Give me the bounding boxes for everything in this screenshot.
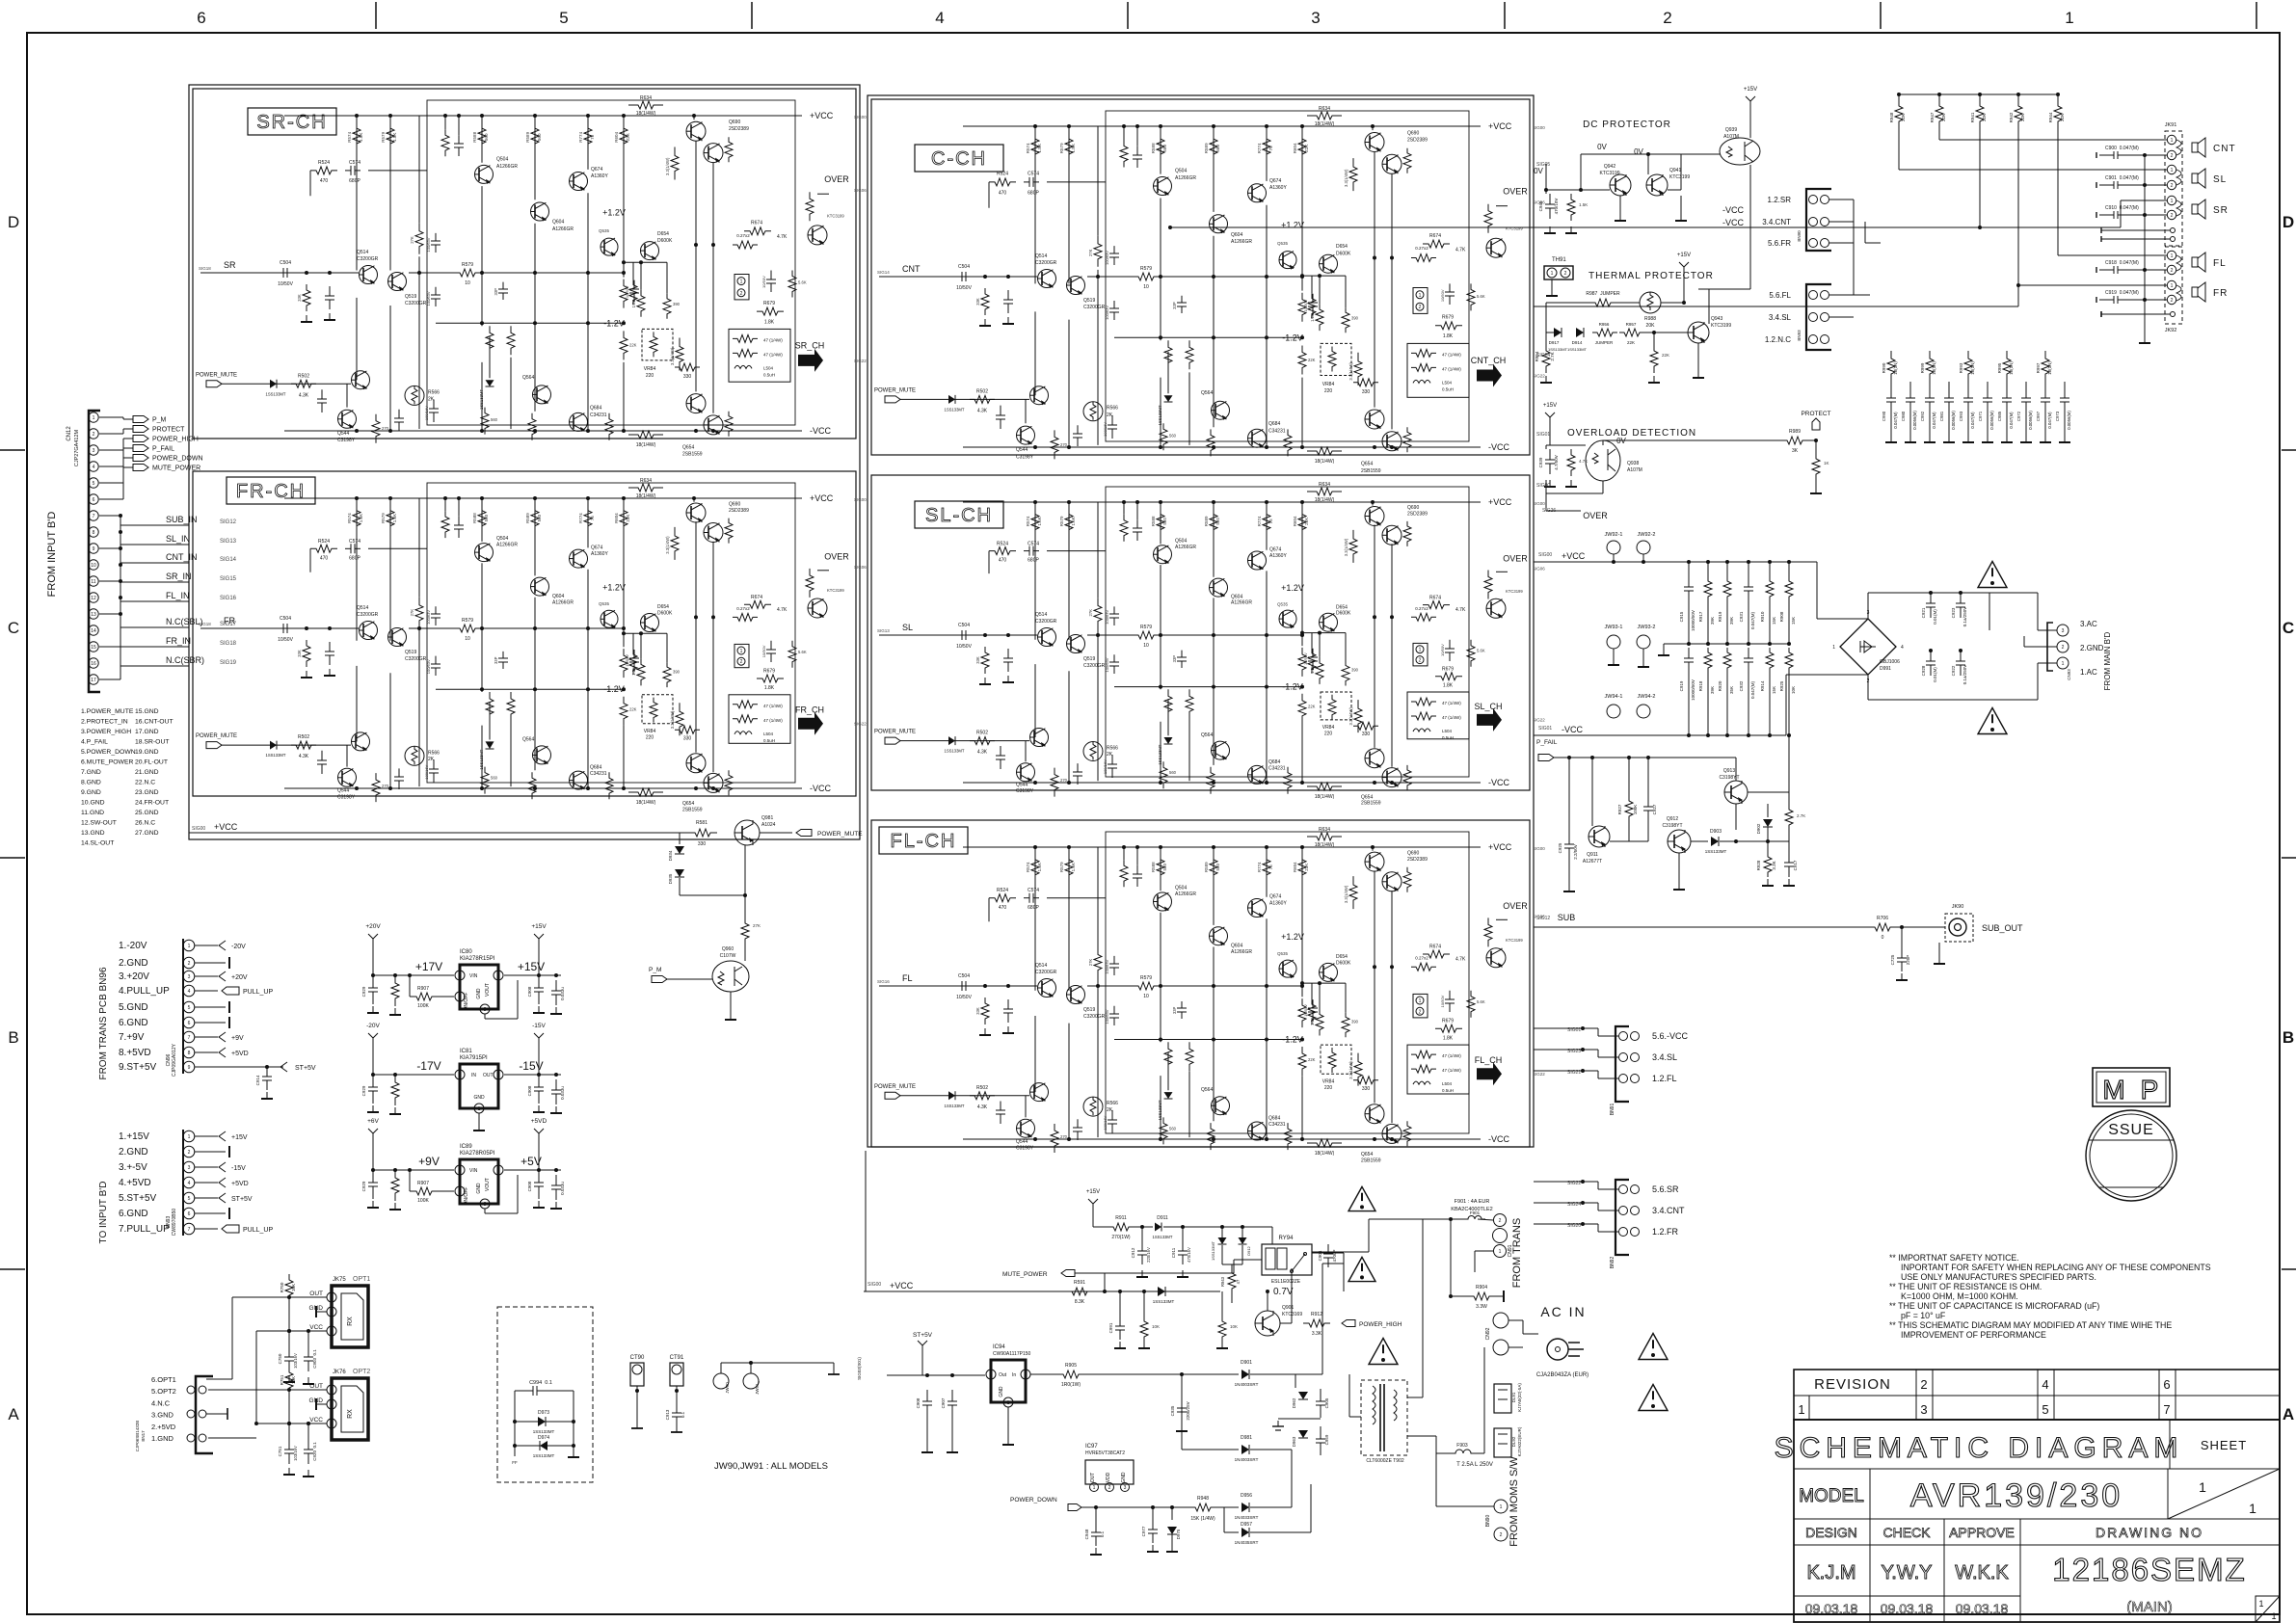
svg-text:BN17: BN17 [141,1430,146,1442]
svg-text:SCHEMATIC DIAGRAM: SCHEMATIC DIAGRAM [1775,1432,2184,1464]
option diode D974 [515,1445,574,1447]
svg-text:1: 1 [2062,661,2065,667]
SL-CH output darlington Q654 [1365,749,1384,768]
BN92 row 1.2.FR [1619,1228,1628,1237]
svg-text:R999: R999 [1920,362,1925,373]
FR-CH darlington emitter resistors [725,519,733,544]
svg-text:6: 6 [197,9,205,27]
svg-text:JW91_: JW91_ [755,1381,760,1396]
thermal diodes D917 D914 [1545,303,1547,333]
svg-text:33K: 33K [975,298,980,306]
FL-CH output emitter resistors R658 [1411,963,1436,971]
JN90 ground [1938,943,1940,964]
C-CH caps C584 C594 [1111,415,1113,425]
C-CH cap C654 [1312,294,1314,303]
svg-text:VR84: VR84 [1322,382,1335,387]
svg-text:22K: 22K [629,343,637,348]
svg-text:10K: 10K [291,1376,296,1384]
svg-text:C: C [2283,619,2294,637]
svg-text:R907: R907 [417,986,429,992]
svg-text:4.3K: 4.3K [977,408,988,413]
svg-text:560: 560 [491,776,498,781]
svg-text:R774: R774 [578,513,583,523]
svg-text:KIA278R15PI: KIA278R15PI [460,956,495,962]
svg-text:0.5uH: 0.5uH [763,738,775,743]
svg-text:10K: 10K [1791,686,1796,694]
svg-text:1: 1 [1093,1485,1096,1491]
svg-text:26.N.C: 26.N.C [135,820,155,827]
svg-text:0.5uH: 0.5uH [1442,735,1454,740]
svg-text:Q674: Q674 [1269,894,1281,900]
svg-text:C574: C574 [349,539,360,545]
R928 C917 [1767,841,1769,852]
svg-text:C994 0.1: C994 0.1 [529,1380,552,1386]
svg-text:0.27x2: 0.27x2 [736,233,750,238]
svg-text:2: 2 [2171,153,2174,159]
FL-CH trimmer VR84 [1321,1045,1351,1074]
svg-text:JK75: JK75 [333,1277,346,1283]
R959 resistor [1653,333,1655,344]
FL-CH resistors R574b R764 [1207,1123,1215,1150]
svg-text:1: 1 [2171,199,2174,204]
svg-text:POWER_MUTE: POWER_MUTE [817,831,863,838]
svg-text:R634: R634 [640,478,652,484]
design/check/approve header row [1794,1544,2280,1546]
dashed option box [497,1307,593,1482]
SR-CH resistor R639 [628,431,663,439]
svg-text:560: 560 [484,133,489,141]
svg-text:GND: GND [476,988,482,999]
svg-text:22K: 22K [2020,114,2025,121]
svg-text:R774: R774 [1257,143,1262,153]
svg-text:SIG00: SIG00 [1533,501,1545,506]
SL-CH resistor R654 [1354,700,1362,732]
svg-text:D654: D654 [1336,244,1348,250]
svg-text:C940: C940 [1538,200,1543,211]
FL-CH mute diode D504 [948,1091,955,1100]
svg-text:R574: R574 [347,513,352,523]
FR-CH feedback resistor R634 [628,484,663,492]
IC89 output antenna [534,1129,544,1140]
IC94 regulator box [991,1360,1026,1402]
input signal rows [99,515,120,517]
svg-text:MODEL: MODEL [1799,1486,1864,1506]
svg-text:R589: R589 [525,131,530,142]
svg-text:** THE UNIT OF RESISTANCE IS O: ** THE UNIT OF RESISTANCE IS OHM. [1889,1282,2042,1291]
svg-text:+15V: +15V [1543,403,1557,409]
SR-CH inner output-stage box [427,100,795,425]
svg-text:Q514: Q514 [1035,963,1047,969]
FL-CH darlington emitter resistors [1403,867,1411,892]
svg-text:1.2.FL: 1.2.FL [1652,1074,1677,1083]
svg-text:C935: C935 [1170,1405,1175,1416]
svg-text:R579: R579 [462,262,473,268]
svg-text:1: 1 [2171,138,2174,144]
SR-CH resistor R877 [675,363,700,371]
IC89 input caps [372,1170,374,1183]
svg-text:+1.2V: +1.2V [1281,932,1304,942]
svg-text:KTC3199: KTC3199 [1669,174,1690,180]
svg-text:ST+5V: ST+5V [231,1196,253,1203]
svg-text:17: 17 [91,678,96,683]
svg-text:C574: C574 [1028,888,1039,893]
svg-text:C3198Y: C3198Y [1016,454,1034,460]
svg-text:R918: R918 [1698,680,1703,691]
svg-text:R566: R566 [428,389,440,395]
svg-text:+15V: +15V [1744,87,1757,93]
svg-text:R987 JUMPER: R987 JUMPER [1586,291,1620,297]
svg-text:C903 0.1: C903 0.1 [312,1349,317,1369]
svg-text:C915: C915 [1679,611,1684,622]
svg-text:D: D [2283,213,2294,231]
svg-text:1SS133MT: 1SS133MT [1153,1299,1175,1304]
svg-text:1SS133MT: 1SS133MT [266,753,286,758]
svg-text:SIG00: SIG00 [192,826,205,832]
resistor R591 [1065,1288,1094,1295]
C-CH resistor R502 [970,395,995,403]
svg-text:3.3(1/4W): 3.3(1/4W) [670,347,675,365]
svg-text:Q690: Q690 [1407,505,1419,511]
svg-text:18(1/4W): 18(1/4W) [636,800,656,806]
svg-text:R917: R917 [1698,611,1703,622]
svg-text:R524: R524 [318,160,330,166]
svg-text:1N4035SRT: 1N4035SRT [1235,1540,1259,1545]
svg-text:KJ7A022(EUR): KJ7A022(EUR) [1517,1426,1522,1456]
FL-CH resistor R559 [1094,947,1102,978]
FR-CH cap C654b resistor R684 [770,641,772,650]
svg-text:C980: C980 [1901,411,1906,421]
svg-text:+9V: +9V [231,1035,244,1042]
svg-text:3.3(1/4W): 3.3(1/4W) [665,536,670,554]
FL-CH label box [879,827,968,854]
svg-text:SIG14: SIG14 [877,270,890,275]
svg-text:47 (1/4W): 47 (1/4W) [763,337,783,342]
svg-text:C932: C932 [1739,680,1744,691]
svg-text:FR: FR [2213,288,2228,299]
svg-text:R579: R579 [1059,143,1064,153]
svg-text:22K: 22K [1304,145,1309,152]
SL-CH label box [915,501,1003,528]
FL-CH resistor R649 [1349,876,1357,909]
svg-text:C908: C908 [916,1397,921,1408]
svg-text:2: 2 [459,1073,462,1078]
svg-text:6.GND: 6.GND [119,1209,148,1219]
svg-text:C914: C914 [255,1075,260,1085]
transistors Q942 Q941 [1610,174,1631,196]
cap C725 [1901,927,1903,948]
C-CH output transistor Q584 [1486,238,1506,257]
svg-text:SIG22: SIG22 [1533,718,1545,723]
svg-text:22K: 22K [629,707,637,712]
svg-text:Q912: Q912 [1667,816,1678,822]
svg-text:10/50V: 10/50V [956,995,973,1000]
+15V antenna relay feed [1088,1199,1098,1211]
svg-text:470: 470 [999,558,1007,564]
svg-text:Q943: Q943 [1711,316,1722,322]
SR-CH output emitter resistors R658 [733,241,758,249]
svg-text:C3198Y: C3198Y [337,794,356,800]
svg-text:27.GND: 27.GND [135,830,159,837]
right column enclosing box [868,95,1534,1147]
FL-CH -VCC rail [963,1138,1481,1140]
fuse holder DL92 [1494,1428,1511,1457]
speaker connector JK92 [2165,247,2182,324]
svg-text:100/63V: 100/63V [1105,1009,1109,1024]
svg-text:BN92: BN92 [1610,1257,1615,1269]
svg-text:0: 0 [1882,935,1884,941]
svg-text:+5VD: +5VD [231,1181,249,1187]
svg-text:100/63V: 100/63V [1105,657,1109,672]
svg-text:C3200GR: C3200GR [1035,970,1057,975]
fuse holder DL91 [1494,1384,1511,1413]
svg-text:0.0056(M): 0.0056(M) [1951,411,1956,430]
svg-text:270: 270 [382,426,389,431]
svg-text:1: 1 [331,1388,334,1394]
SR-CH input RC R524 C574 [310,167,337,174]
svg-text:18.SR-OUT: 18.SR-OUT [135,739,170,746]
svg-text:SIG18: SIG18 [220,641,237,647]
svg-text:7: 7 [188,1227,191,1233]
svg-text:470: 470 [320,556,329,562]
svg-text:27K: 27K [410,609,414,617]
svg-text:5: 5 [93,481,95,487]
svg-text:2.GND: 2.GND [2080,644,2104,652]
AC plug symbol [1547,1339,1568,1360]
svg-text:1.5K: 1.5K [1037,144,1042,152]
svg-text:27K: 27K [1088,609,1093,617]
svg-text:Q938: Q938 [1627,461,1639,466]
C-CH feedback resistor R634 [1307,112,1342,120]
svg-text:R674: R674 [751,221,762,226]
svg-text:330: 330 [1362,1086,1371,1092]
resistor R904 [1467,1292,1496,1300]
svg-text:C919: C919 [1679,680,1684,691]
svg-text:1SS133MT: 1SS133MT [1705,849,1727,854]
diode D901 [1182,1373,1239,1375]
svg-text:+VCC: +VCC [810,111,834,120]
svg-text:100/63V: 100/63V [426,610,431,625]
svg-text:2SD2389: 2SD2389 [1407,512,1428,518]
svg-text:R988: R988 [1644,316,1656,322]
C-CH output darlington Q690 [1365,133,1384,152]
svg-text:VR84: VR84 [1322,1079,1335,1085]
svg-text:2: 2 [1419,1009,1422,1015]
SL-CH caps C634 C639 [1113,606,1115,614]
svg-text:Q674: Q674 [1269,178,1281,184]
svg-text:C3200GR: C3200GR [1083,663,1106,669]
svg-text:A: A [2283,1405,2294,1423]
svg-text:R574: R574 [1026,516,1030,526]
svg-text:3K: 3K [1792,448,1799,454]
M P stamp [2093,1068,2170,1106]
svg-text:27K: 27K [1088,249,1093,256]
svg-text:KTC3199: KTC3199 [827,588,844,593]
svg-text:10/50V: 10/50V [956,644,973,650]
svg-text:+6V: +6V [367,1118,379,1125]
svg-text:KIA278R05PI: KIA278R05PI [460,1151,495,1157]
C-CH output darlington Q654 [1365,410,1384,429]
connector BN92 bracket [1615,1180,1629,1255]
warning triangle bridge bottom [1978,708,2007,734]
FR-CH amplifier block outline [193,471,856,796]
svg-text:560: 560 [1215,863,1220,870]
svg-text:Q684: Q684 [1268,759,1280,765]
svg-text:3: 3 [484,1202,487,1208]
svg-text:Q504: Q504 [1175,539,1187,545]
svg-text:D963: D963 [1292,1436,1296,1447]
svg-text:Q544: Q544 [337,788,349,794]
SL-CH cap C654b resistor R684 [1449,640,1451,649]
svg-text:R574: R574 [347,131,352,142]
names row [1794,1595,2020,1597]
svg-text:R502: R502 [976,1085,988,1091]
svg-text:Q941: Q941 [1669,168,1681,173]
IC81 output caps [538,1075,540,1087]
svg-text:R907: R907 [417,1181,429,1186]
SL-CH POWER_MUTE input [885,737,900,744]
svg-text:10: 10 [1143,994,1149,999]
svg-text:OUT: OUT [483,1073,494,1078]
svg-text:1: 1 [2065,9,2073,27]
svg-text:2.PROTECT_IN: 2.PROTECT_IN [81,719,128,726]
C-CH resistor R674 [1423,240,1450,248]
svg-text:Q684: Q684 [1268,421,1280,427]
optical receiver JK75 OPT1 [332,1286,368,1347]
svg-text:CNT: CNT [2213,144,2236,154]
C-CH input RC R524 C574 [989,178,1016,186]
diodes D903 D912 vertical [1220,1225,1224,1229]
svg-text:10/50V: 10/50V [1440,289,1445,302]
svg-text:4.PULL_UP: 4.PULL_UP [119,986,170,997]
svg-text:100/16V: 100/16V [1103,1115,1108,1130]
svg-text:0.047(M): 0.047(M) [1750,611,1755,629]
svg-text:R634: R634 [640,95,652,101]
svg-text:Q911: Q911 [1587,852,1598,858]
svg-text:8: 8 [93,530,95,536]
svg-text:A1266GR: A1266GR [1175,891,1196,897]
svg-text:10000/50V: 10000/50V [1691,679,1695,701]
svg-text:2: 2 [2171,298,2174,304]
svg-text:2SD2389: 2SD2389 [729,126,749,132]
svg-text:C900 0.047(M): C900 0.047(M) [2105,146,2139,151]
SR-CH mid transistor Q535 [601,238,618,255]
svg-text:R579: R579 [381,131,386,142]
FR-CH caps C584 C594 [433,759,435,769]
left zone ticks [0,449,25,451]
svg-text:R579: R579 [1140,625,1152,630]
svg-text:-17V: -17V [416,1059,441,1073]
svg-text:17.GND: 17.GND [135,729,159,735]
svg-text:R591: R591 [1074,1280,1085,1286]
model row [1794,1518,2280,1520]
SR-CH transistor Q504 [475,165,494,183]
svg-text:C948: C948 [1084,1529,1089,1539]
SR-CH +VCC rail [284,115,802,117]
JK76 bias resistor R751 10K [285,1367,293,1394]
SL-CH resistors R574b R764 [1207,767,1215,794]
svg-text:75: 75 [1268,865,1273,870]
SR-CH mid horizontal wires [409,272,455,274]
svg-text:3: 3 [93,448,95,454]
svg-text:47 (1/4W): 47 (1/4W) [1442,366,1461,371]
svg-text:3.3(1/4W): 3.3(1/4W) [670,710,675,729]
svg-text:D914: D914 [1572,340,1583,345]
svg-text:0.047(M): 0.047(M) [2009,412,2014,429]
jumpers JW90 JW91 [713,1373,729,1389]
svg-text:1.5K: 1.5K [359,514,363,522]
diode D903 [1691,840,1708,842]
svg-text:1.-20V: 1.-20V [119,941,147,951]
SR-CH label box [248,108,336,135]
BN96 connector rows [182,939,184,1074]
svg-text:2: 2 [497,1168,500,1174]
svg-text:C908: C908 [527,986,532,997]
svg-text:BN91: BN91 [1610,1104,1615,1116]
svg-text:Q514: Q514 [1035,253,1047,259]
svg-text:3: 3 [331,1329,334,1335]
svg-text:100K: 100K [1633,805,1638,815]
cap C948 [1095,1507,1097,1523]
svg-text:1: 1 [2271,1611,2276,1621]
svg-text:D935: D935 [668,873,673,884]
relay RY94 [1262,1244,1312,1275]
svg-text:OVER: OVER [824,552,849,562]
svg-text:CNT: CNT [902,264,921,274]
svg-text:KIA7915PI: KIA7915PI [460,1055,488,1061]
svg-text:JW90,JW91 : ALL MODELS: JW90,JW91 : ALL MODELS [714,1461,828,1472]
SL-CH mute diode D504 [948,736,955,745]
svg-text:FR-CH: FR-CH [236,481,306,502]
svg-text:+VCC: +VCC [1488,842,1512,852]
svg-text:R947: R947 [1930,112,1935,122]
svg-text:SIG24: SIG24 [1536,353,1550,359]
C-CH resistor R609 [1298,293,1306,322]
svg-text:POWER_MUTE: POWER_MUTE [874,387,916,393]
svg-text:C3200GR: C3200GR [405,656,427,662]
svg-text:2: 2 [331,1310,334,1316]
POWER_HIGH tag [1342,1320,1355,1327]
svg-text:KTC3199: KTC3199 [827,214,844,219]
svg-text:VOUT: VOUT [485,1178,491,1191]
svg-text:4: 4 [935,9,944,27]
svg-text:R674: R674 [751,595,762,600]
svg-text:R774: R774 [1257,862,1262,872]
svg-text:C34231: C34231 [590,412,607,418]
FR-CH output network box [729,695,790,744]
transistor Q960 [712,961,749,992]
svg-text:220: 220 [646,735,654,741]
FL-CH resistor R685 [1316,1009,1323,1036]
svg-text:330: 330 [1362,732,1371,737]
svg-text:A1266GR: A1266GR [1231,239,1252,245]
svg-text:22K: 22K [1627,340,1635,345]
svg-text:3.3(1/4W): 3.3(1/4W) [1348,1061,1353,1079]
svg-text:BN90: BN90 [1797,230,1802,242]
svg-text:0.033u: 0.033u [560,1182,565,1195]
svg-text:10: 10 [1143,643,1149,649]
svg-text:IC97: IC97 [1085,1444,1098,1450]
svg-text:33K: 33K [975,1007,980,1015]
svg-text:+9V: +9V [418,1155,440,1168]
svg-text:10/50V: 10/50V [1303,1004,1308,1017]
svg-text:0V: 0V [1634,147,1643,156]
svg-text:C504: C504 [958,623,970,628]
svg-text:9.ST+5V: 9.ST+5V [119,1062,157,1073]
svg-text:560: 560 [1162,518,1167,525]
svg-text:0.27x2: 0.27x2 [1415,956,1428,961]
SL-CH bias resistor columns [1031,506,1039,539]
FR-CH resistor R649 [671,527,679,560]
